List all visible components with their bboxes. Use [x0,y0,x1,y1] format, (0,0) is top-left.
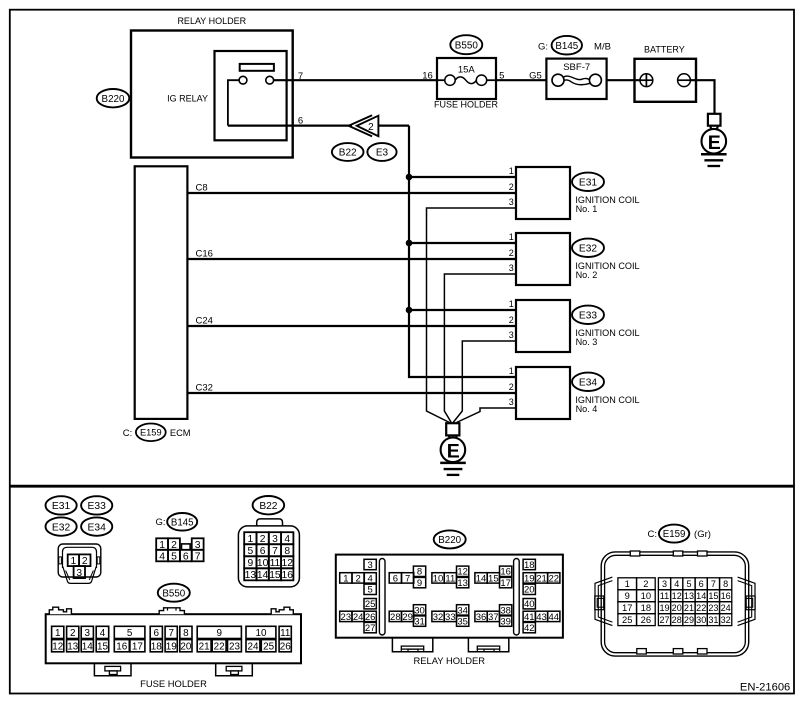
svg-text:6: 6 [154,628,160,639]
E159 face pin 2 [637,578,656,590]
B220 face pin 27 [364,622,376,632]
B220 face pin 1 [340,573,352,583]
B550 face pin 15 [96,640,109,652]
svg-text:11: 11 [660,591,669,601]
svg-text:No. 4: No. 4 [576,404,598,414]
E159 face pin 21 [683,602,695,614]
svg-text:8: 8 [417,567,422,578]
B550 face pin 26 [279,640,291,652]
B220 face pin 43 [535,611,547,621]
B220 face pin 28 [389,611,401,621]
svg-text:G5: G5 [529,71,542,82]
E159 face pin 13 [683,590,695,602]
svg-text:33: 33 [445,612,456,623]
wire bus to coil3 pin1 [409,309,516,311]
svg-text:12: 12 [672,591,682,601]
svg-text:E: E [708,132,721,154]
B220 face pin 11 [444,573,456,583]
B220 face pin 2 [352,573,364,583]
connector E32 label [572,239,604,257]
E159 face pin 30 [695,614,707,626]
svg-text:8: 8 [723,579,728,589]
B145 face pin 2 [168,538,180,550]
svg-text:11: 11 [280,628,291,639]
B220 face pin 24 [352,611,364,621]
svg-text:12: 12 [457,567,468,578]
B220 face pin 16 [500,566,512,576]
svg-text:1: 1 [625,578,630,589]
B220 face pin 30 [413,605,425,615]
B550 face fuse 6 [150,626,162,638]
svg-text:No. 1: No. 1 [576,204,598,214]
svg-text:E31: E31 [52,501,71,512]
wire C8 to coil pin2 [187,192,516,194]
E159 face pin 18 [637,602,656,614]
svg-text:22: 22 [214,641,225,652]
svg-text:2: 2 [260,534,266,545]
B550 face fuse 9 [197,626,241,638]
svg-text:E159: E159 [663,529,686,540]
svg-text:29: 29 [684,615,694,625]
E31 face pin 3 [74,566,85,578]
B220 face pin 26 [364,611,376,621]
svg-text:24: 24 [353,612,364,623]
svg-text:2: 2 [509,382,514,392]
svg-text:ECM: ECM [170,428,191,438]
connector B220 face label [434,530,466,548]
svg-text:28: 28 [390,612,401,623]
B220 face pin 38 [500,605,512,615]
svg-text:10: 10 [257,558,269,569]
B22 face pin 1 [244,532,256,544]
ECM E159 [123,166,188,439]
B220 face pin 18 [523,559,535,569]
svg-text:25: 25 [365,599,376,610]
ignition coil No.2 [516,233,570,285]
svg-text:E34: E34 [579,378,597,389]
B550 face pin 13 [67,640,79,652]
connector E3 label [367,143,396,161]
B550 face fuse 10 [246,626,276,638]
svg-text:C:: C: [123,428,133,439]
fuse holder face outline [46,607,301,689]
svg-text:37: 37 [488,612,499,623]
E159 face pin 25 [618,614,637,626]
E159 face pin 5 [683,578,695,590]
B22 face pin 3 [269,532,281,544]
svg-text:26: 26 [365,612,376,623]
svg-text:FUSE HOLDER: FUSE HOLDER [140,678,207,689]
junction dot coil3 pin1 [406,307,413,314]
svg-text:38: 38 [500,605,511,616]
B550 face fuse 1 [52,626,64,638]
svg-text:17: 17 [500,578,511,589]
svg-text:B22: B22 [259,501,277,512]
E159 face pin 1 [618,578,637,590]
B220 face pin 6 [389,573,401,583]
E159 face pin 23 [707,602,719,614]
svg-text:G:: G: [155,517,165,528]
B550 face pin 23 [228,640,242,652]
E159 face pin 6 [695,578,707,590]
B220 face pin 3 [364,559,376,569]
ground E (battery) [701,114,727,166]
B22 face pin 15 [269,568,281,580]
svg-text:B220: B220 [438,535,461,546]
wire pin6 to arrow [228,124,352,126]
svg-text:2: 2 [509,248,514,258]
wire fuse to SBF [496,79,546,81]
svg-text:44: 44 [548,612,559,623]
svg-text:41: 41 [524,612,535,623]
connector B22 face label [253,496,285,514]
svg-text:14: 14 [82,641,93,652]
svg-text:34: 34 [457,605,468,616]
svg-text:13: 13 [457,578,468,589]
svg-text:7: 7 [272,546,278,557]
svg-text:(Gr): (Gr) [694,529,711,540]
svg-text:E3: E3 [376,148,389,159]
B145 face pin 4 [156,550,168,562]
E31 face pin 2 [79,554,90,566]
E159 face pin 32 [720,614,732,626]
B550 face pin 18 [150,640,162,652]
B22 face pin 13 [244,568,256,580]
svg-text:M/B: M/B [594,41,611,52]
svg-text:5: 5 [686,579,691,589]
svg-text:42: 42 [524,623,535,634]
svg-text:43: 43 [536,612,547,623]
wire coil3 pin3 to ground [453,341,516,423]
svg-text:6: 6 [393,573,398,584]
svg-text:26: 26 [280,641,291,652]
svg-text:B550: B550 [455,40,479,51]
svg-text:3: 3 [368,560,373,571]
connector E159 label [136,424,166,442]
B220 face pin 7 [402,573,414,583]
svg-text:C16: C16 [196,248,213,259]
svg-text:1: 1 [55,628,61,639]
svg-text:25: 25 [622,614,632,625]
E159 face pin 24 [720,602,732,614]
E159 face pin 16 [720,590,732,602]
E159 face pin 10 [637,590,656,602]
B145 face pin 5 [168,550,180,562]
B220 face pin 4 [364,573,376,583]
svg-text:C8: C8 [196,182,208,193]
B220 face pin 5 [364,584,376,594]
svg-text:1: 1 [247,534,253,545]
connector B550 face label [158,584,190,602]
connector E31 label [572,173,604,191]
wire power bus [409,126,516,377]
svg-text:RELAY HOLDER: RELAY HOLDER [414,655,486,666]
svg-text:10: 10 [255,628,266,639]
E159 face pin 11 [658,590,670,602]
svg-text:E33: E33 [579,311,597,322]
connector E33 label [81,496,112,514]
E31 face pin 1 [68,554,79,566]
wire bus to coil2 pin1 [409,242,516,244]
svg-text:17: 17 [132,641,143,652]
B220 face pin 22 [548,573,560,583]
E159 face pin 20 [671,602,683,614]
B550 face fuse 5 [114,626,145,638]
B220 face pin 15 [487,573,499,583]
E159 face pin 29 [683,614,695,626]
wire coil2 pin3 to ground [444,274,516,423]
wire arrow to bus [378,124,409,126]
svg-text:No. 2: No. 2 [576,270,598,280]
ignition coil No.4 [516,367,570,419]
svg-text:11: 11 [445,573,455,584]
wire coil4 pin3 to ground [457,408,517,423]
connector E31-E34 face [58,544,101,583]
wire coil1 pin3 to ground [427,208,517,423]
B220 face pin 8 [413,566,425,576]
B145 face key notch [182,544,191,550]
B145 face pin 3 [192,538,204,550]
svg-text:3: 3 [509,197,514,207]
svg-text:1: 1 [509,366,514,376]
B220 face pin 25 [364,599,376,609]
connector B22 label [332,143,364,161]
svg-text:No. 3: No. 3 [576,337,598,347]
wire relay internal [228,80,239,125]
B220 face pin 9 [413,577,425,587]
svg-text:B145: B145 [555,41,578,52]
svg-text:5: 5 [127,628,133,639]
svg-text:30: 30 [414,605,425,616]
B220 face pin 40 [523,599,535,609]
svg-text:1: 1 [509,166,514,176]
svg-text:12: 12 [282,558,294,569]
B550 face pin 21 [197,640,211,652]
B550 face pin 22 [212,640,226,652]
B220 face pin 44 [548,611,560,621]
svg-text:40: 40 [524,599,535,610]
svg-text:B145: B145 [171,517,194,528]
E159 face pin 19 [658,602,670,614]
wire battery to ground [690,80,714,114]
svg-text:17: 17 [622,602,632,613]
svg-text:21: 21 [684,603,694,613]
svg-text:20: 20 [524,585,535,596]
B145 face pin 1 [156,538,168,550]
svg-text:20: 20 [672,603,682,613]
svg-text:13: 13 [684,591,694,601]
connector E34 label [81,517,112,535]
E159 face pin 12 [671,590,683,602]
B220 face pin 14 [475,573,487,583]
connector E32 label [46,517,77,535]
B220 face pin 17 [500,577,512,587]
B220 face pin 29 [402,611,414,621]
B220 face pin 12 [457,566,469,576]
svg-text:15: 15 [269,570,281,581]
B550 face fuse 8 [180,626,192,638]
connector E159 face label [648,525,711,543]
svg-text:C:: C: [648,529,658,540]
svg-text:28: 28 [672,615,682,625]
svg-text:24: 24 [721,603,731,613]
svg-text:2: 2 [509,182,514,192]
svg-text:9: 9 [417,578,422,589]
B550 face pin 12 [52,640,64,652]
svg-text:2: 2 [368,122,374,133]
connector E33 label [572,306,604,324]
svg-text:E159: E159 [140,428,162,438]
E159 face pin 15 [707,590,719,602]
svg-text:27: 27 [659,615,669,625]
svg-text:E31: E31 [579,178,597,189]
B145 face pin 7 [192,550,204,562]
connector B145 face label [155,513,197,531]
svg-text:E33: E33 [88,501,107,512]
svg-text:26: 26 [641,614,651,625]
E159 face pin 26 [637,614,656,626]
connector E159 face outline [595,551,755,656]
svg-text:10: 10 [433,573,444,584]
wire SBF to battery [607,79,640,81]
svg-text:31: 31 [708,615,718,625]
battery BAT1 [635,44,697,101]
svg-text:15A: 15A [458,65,476,76]
svg-text:18: 18 [151,641,162,652]
B550 face fuse 11 [279,626,291,638]
svg-text:B550: B550 [162,588,185,599]
svg-text:E: E [447,441,460,463]
B220 face pin 33 [444,611,456,621]
svg-text:2: 2 [70,628,76,639]
svg-text:27: 27 [365,623,376,634]
svg-text:24: 24 [247,641,258,652]
connector B145 label [538,36,611,55]
E159 face pin 8 [720,578,732,590]
svg-text:3: 3 [662,579,667,589]
B550 face fuse 4 [96,626,109,638]
svg-text:6: 6 [699,579,704,589]
B550 face pin 20 [180,640,192,652]
B22 face pin 4 [281,532,293,544]
B220 face pin 21 [535,573,547,583]
svg-text:3: 3 [76,568,82,579]
svg-text:11: 11 [270,558,281,569]
svg-text:16: 16 [282,570,294,581]
E159 face pin 27 [658,614,670,626]
B550 face pin 14 [81,640,93,652]
svg-text:16: 16 [721,591,731,601]
svg-text:36: 36 [476,612,487,623]
E159 face pin 31 [707,614,719,626]
wire C32 to coil pin2 [187,392,516,394]
B220 face pin 36 [475,611,487,621]
B145 face pin 6 [180,550,192,562]
connector B220 [97,89,130,107]
svg-text:23: 23 [341,612,352,623]
svg-text:4: 4 [674,579,679,589]
relay holder face outline [336,555,563,666]
wire C24 to coil pin2 [187,325,516,327]
svg-text:4: 4 [100,628,106,639]
svg-text:22: 22 [696,603,706,613]
svg-text:10: 10 [641,590,651,601]
B550 face pin 25 [261,640,276,652]
svg-text:22: 22 [548,573,559,584]
svg-text:1: 1 [509,299,514,309]
B220 face pin 13 [457,577,469,587]
svg-text:18: 18 [641,602,651,613]
svg-text:19: 19 [166,641,177,652]
svg-text:9: 9 [247,558,253,569]
svg-text:3: 3 [272,534,278,545]
B22 face pin 6 [257,544,269,556]
B550 face pin 16 [114,640,129,652]
svg-text:FUSE HOLDER: FUSE HOLDER [434,99,499,109]
B220 face pin 35 [457,616,469,626]
svg-text:8: 8 [183,628,189,639]
wire C16 to coil pin2 [187,258,516,260]
svg-text:B22: B22 [339,148,357,159]
relay U1 IG RELAY [167,51,286,140]
connector E34 label [572,373,604,391]
svg-text:3: 3 [509,263,514,273]
B220 face pin 19 [523,573,535,583]
B22 face pin 5 [244,544,256,556]
svg-text:E34: E34 [88,522,107,533]
svg-text:15: 15 [488,573,499,584]
svg-text:21: 21 [199,641,210,652]
svg-text:25: 25 [263,641,274,652]
svg-text:31: 31 [414,617,425,628]
svg-text:5: 5 [247,546,253,557]
svg-text:3: 3 [509,330,514,340]
B22 face pin 7 [269,544,281,556]
svg-text:E32: E32 [52,522,71,533]
svg-text:6: 6 [260,546,266,557]
B220 face pin 41 [523,611,535,621]
svg-text:G:: G: [538,41,548,52]
B22 face pin 14 [257,568,269,580]
B220 face pin 39 [500,616,512,626]
B220 face pin 20 [523,584,535,594]
connector B550 label [450,35,482,54]
svg-text:32: 32 [433,612,444,623]
B220 face pin 31 [413,616,425,626]
fuse holder F1 15A [434,58,499,109]
svg-text:3: 3 [85,628,91,639]
svg-text:1: 1 [343,573,348,584]
B220 face pin 10 [432,573,444,583]
junction dot coil2 pin1 [406,240,413,247]
svg-text:35: 35 [457,617,468,628]
svg-text:15: 15 [708,591,718,601]
svg-text:7: 7 [168,628,174,639]
svg-text:30: 30 [696,615,706,625]
svg-text:23: 23 [229,641,240,652]
B22 face pin 11 [269,556,281,568]
B22 face pin 12 [281,556,293,568]
B550 face fuse 3 [81,626,93,638]
svg-text:18: 18 [524,560,535,571]
B550 face fuse 2 [67,626,79,638]
svg-text:14: 14 [476,573,487,584]
svg-text:4: 4 [368,573,373,584]
svg-text:5: 5 [171,551,177,562]
svg-text:21: 21 [536,573,547,584]
svg-text:4: 4 [159,551,165,562]
B22 face pin 2 [257,532,269,544]
